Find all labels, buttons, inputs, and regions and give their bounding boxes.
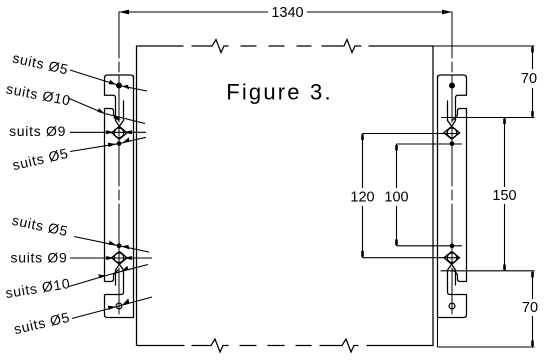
right rail top hole 5 xyxy=(449,83,455,89)
leader arrowheads suits 10 bottom xyxy=(98,274,106,278)
right rail outer edge middle segment xyxy=(466,109,468,282)
dimension 150 end ticks xyxy=(503,119,506,271)
right rail extension drop line xyxy=(437,318,439,348)
plate bottom edge break symbol right xyxy=(320,339,358,352)
left rail top inner hole 5 xyxy=(117,141,122,146)
left rail top hole 5 xyxy=(116,83,122,89)
left rail bottom pad outline xyxy=(105,295,134,318)
svg-text:suits Ø5: suits Ø5 xyxy=(11,145,70,173)
left rail bottom inner hole 5 xyxy=(117,243,122,248)
svg-text:suits Ø9: suits Ø9 xyxy=(11,250,68,266)
dimension 100 lines xyxy=(397,144,463,246)
left rail outer edge middle segment xyxy=(104,109,106,282)
left rail top collar diamond xyxy=(112,126,128,139)
plate bottom edge solid right segment xyxy=(367,345,433,347)
leader arrowheads suits 5 lower-inner xyxy=(109,241,117,246)
left rail top keyhole slot xyxy=(116,98,124,126)
plate top edge solid left segment xyxy=(137,45,184,47)
dimension 70 top lines xyxy=(433,46,535,118)
dimension 120 end ticks xyxy=(361,135,364,257)
svg-text:120: 120 xyxy=(350,190,374,206)
right rail bottom keyhole slot xyxy=(448,264,456,288)
dimension 1340 line xyxy=(119,11,452,13)
plate right edge xyxy=(432,46,434,346)
leader line suits 10 bottom xyxy=(69,265,148,287)
svg-text:suits Ø5: suits Ø5 xyxy=(11,212,70,239)
plate top edge break symbol right xyxy=(322,40,361,53)
svg-text:suits Ø10: suits Ø10 xyxy=(4,275,71,301)
plate top edge break symbol left xyxy=(192,40,228,53)
plate bottom edge dashed middle xyxy=(240,345,311,347)
plate top edge solid right segment xyxy=(369,45,433,47)
plate top edge dashed middle xyxy=(241,45,311,47)
left rail bottom collar diamond xyxy=(112,251,128,264)
right rail top keyhole slot xyxy=(448,98,456,126)
dimension 120 lines xyxy=(363,134,461,258)
svg-text:suits Ø5: suits Ø5 xyxy=(12,309,71,337)
dimension 1340 left arrowhead xyxy=(119,10,129,15)
left rail bottom keyhole slot xyxy=(116,264,124,288)
left rail top hole 9 xyxy=(114,128,124,138)
right rail bottom pad outline xyxy=(438,295,467,318)
right rail bottom collar diamond xyxy=(444,251,460,264)
leader line suits 5 lower-inner xyxy=(74,237,149,253)
left rail bottom slot 10 notch xyxy=(105,270,119,281)
svg-text:Figure 3.: Figure 3. xyxy=(226,80,333,105)
left rail inner edge xyxy=(133,76,135,318)
right rail pad hole 5 xyxy=(449,303,455,309)
right rail inner edge xyxy=(437,76,439,318)
dimension 1340 right arrowhead xyxy=(442,10,452,15)
svg-text:suits Ø9: suits Ø9 xyxy=(9,123,66,139)
right rail top inner hole 5 xyxy=(450,141,455,146)
leader arrowheads suits 5 bottom xyxy=(108,306,116,310)
right rail bottom slot 10 notch xyxy=(453,270,467,281)
dimension 100 end ticks xyxy=(395,145,398,245)
left rail top slot 10 notch xyxy=(105,109,119,120)
right rail top block outline xyxy=(438,75,467,95)
leader line suits 10 top xyxy=(68,98,145,124)
right rail bottom pad top edge xyxy=(448,288,467,295)
leader line suits 5 bottom xyxy=(72,297,152,319)
svg-text:100: 100 xyxy=(384,190,408,206)
leader arrowheads suits 5 upper-inner xyxy=(108,143,116,147)
right rail top hole 9 xyxy=(447,128,457,138)
leader arrowheads suits 10 top xyxy=(98,108,105,114)
svg-text:suits Ø10: suits Ø10 xyxy=(5,80,72,108)
dimension 150 lines xyxy=(441,118,535,271)
plate left edge xyxy=(136,46,138,346)
dimension 70 bottom lines xyxy=(438,271,535,347)
svg-text:150: 150 xyxy=(492,188,516,204)
svg-text:1340: 1340 xyxy=(271,5,303,21)
right rail top slot 10 notch xyxy=(453,109,467,120)
svg-text:70: 70 xyxy=(521,71,537,87)
leader line suits 9 top xyxy=(70,131,146,133)
right rail bottom hole 9 xyxy=(447,253,457,263)
left rail top block outline xyxy=(105,75,134,95)
leader arrowheads suits 5 top xyxy=(109,80,117,85)
leader line suits 9 bottom xyxy=(70,257,152,259)
left rail top block bottom edge xyxy=(105,95,116,98)
right rail top collar diamond xyxy=(444,126,460,139)
plate bottom edge solid left segment xyxy=(137,345,185,347)
left rail pad hole 5 xyxy=(116,303,122,309)
left rail bottom pad top edge xyxy=(105,288,124,295)
dimension 70 bottom end ticks xyxy=(531,272,534,346)
right rail centerline xyxy=(451,12,453,318)
left rail centerline xyxy=(118,12,120,318)
svg-text:70: 70 xyxy=(522,300,538,316)
leader arrowheads suits 9 bottom xyxy=(106,256,114,260)
dimension 70 top end ticks xyxy=(531,47,534,117)
plate bottom edge break symbol left xyxy=(192,339,228,352)
leader line suits 5 upper-inner xyxy=(70,137,146,151)
left rail bottom hole 9 xyxy=(114,253,124,263)
right rail bottom inner hole 5 xyxy=(450,243,455,248)
right rail top block bottom edge xyxy=(456,95,467,98)
svg-text:suits Ø5: suits Ø5 xyxy=(11,50,70,78)
leader line suits 5 top xyxy=(70,70,147,91)
leader arrowheads suits 9 top xyxy=(106,130,114,134)
